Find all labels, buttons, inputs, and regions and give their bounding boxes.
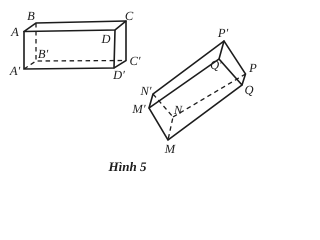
svg-text:C: C	[125, 9, 134, 23]
svg-text:D: D	[100, 32, 110, 46]
svg-text:Hình 5: Hình 5	[108, 159, 147, 174]
svg-text:A′: A′	[9, 64, 21, 78]
svg-text:C′: C′	[129, 54, 140, 68]
svg-text:M′: M′	[131, 102, 145, 116]
svg-text:M: M	[164, 142, 176, 156]
svg-text:D′: D′	[112, 68, 125, 82]
svg-text:B′: B′	[38, 47, 49, 61]
svg-text:P: P	[248, 61, 257, 75]
svg-text:N: N	[173, 103, 183, 117]
svg-text:P′: P′	[217, 26, 229, 40]
svg-text:Q: Q	[244, 83, 253, 97]
svg-text:A: A	[10, 25, 19, 39]
svg-text:B: B	[27, 9, 35, 23]
svg-text:Q′: Q′	[210, 58, 222, 72]
svg-text:N′: N′	[139, 84, 151, 98]
